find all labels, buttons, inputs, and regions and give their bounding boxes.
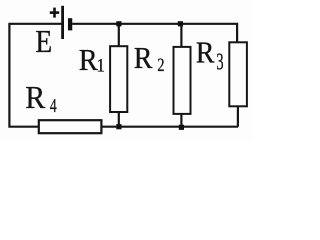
svg-text:R: R	[79, 43, 98, 77]
wire: bottom from R4 to bottom-right corner	[101, 126, 238, 128]
wire: R1 top stub	[118, 24, 120, 46]
svg-text:R: R	[196, 36, 215, 69]
wire: R2 top stub	[180, 24, 182, 47]
svg-text:E: E	[35, 24, 52, 59]
battery polarity + mark	[50, 8, 59, 18]
svg-text:R: R	[134, 42, 153, 75]
resistor R3	[229, 42, 247, 106]
svg-text:3: 3	[216, 49, 223, 76]
svg-text:R: R	[25, 80, 45, 115]
resistor R4	[39, 120, 102, 133]
wire: R1 bottom stub	[118, 112, 120, 127]
node: bottom junction at R2	[179, 125, 184, 130]
node: bottom junction at R1	[116, 124, 121, 129]
resistor R2	[174, 47, 191, 114]
node: top junction at R1	[116, 21, 121, 26]
svg-text:1: 1	[97, 54, 105, 75]
wire: left side + top-left segment to battery	[9, 24, 62, 127]
svg-text:2: 2	[157, 54, 164, 75]
node: top junction at R2	[178, 21, 183, 26]
wire: top from battery to top-right corner, down to R3	[72, 24, 237, 43]
wire: R3 bottom stub down to bottom-right corner	[237, 106, 239, 126]
svg-text:4: 4	[50, 94, 57, 116]
battery E (cell)	[63, 6, 71, 39]
wire: R2 bottom stub	[180, 114, 182, 127]
resistor R1	[110, 46, 127, 112]
